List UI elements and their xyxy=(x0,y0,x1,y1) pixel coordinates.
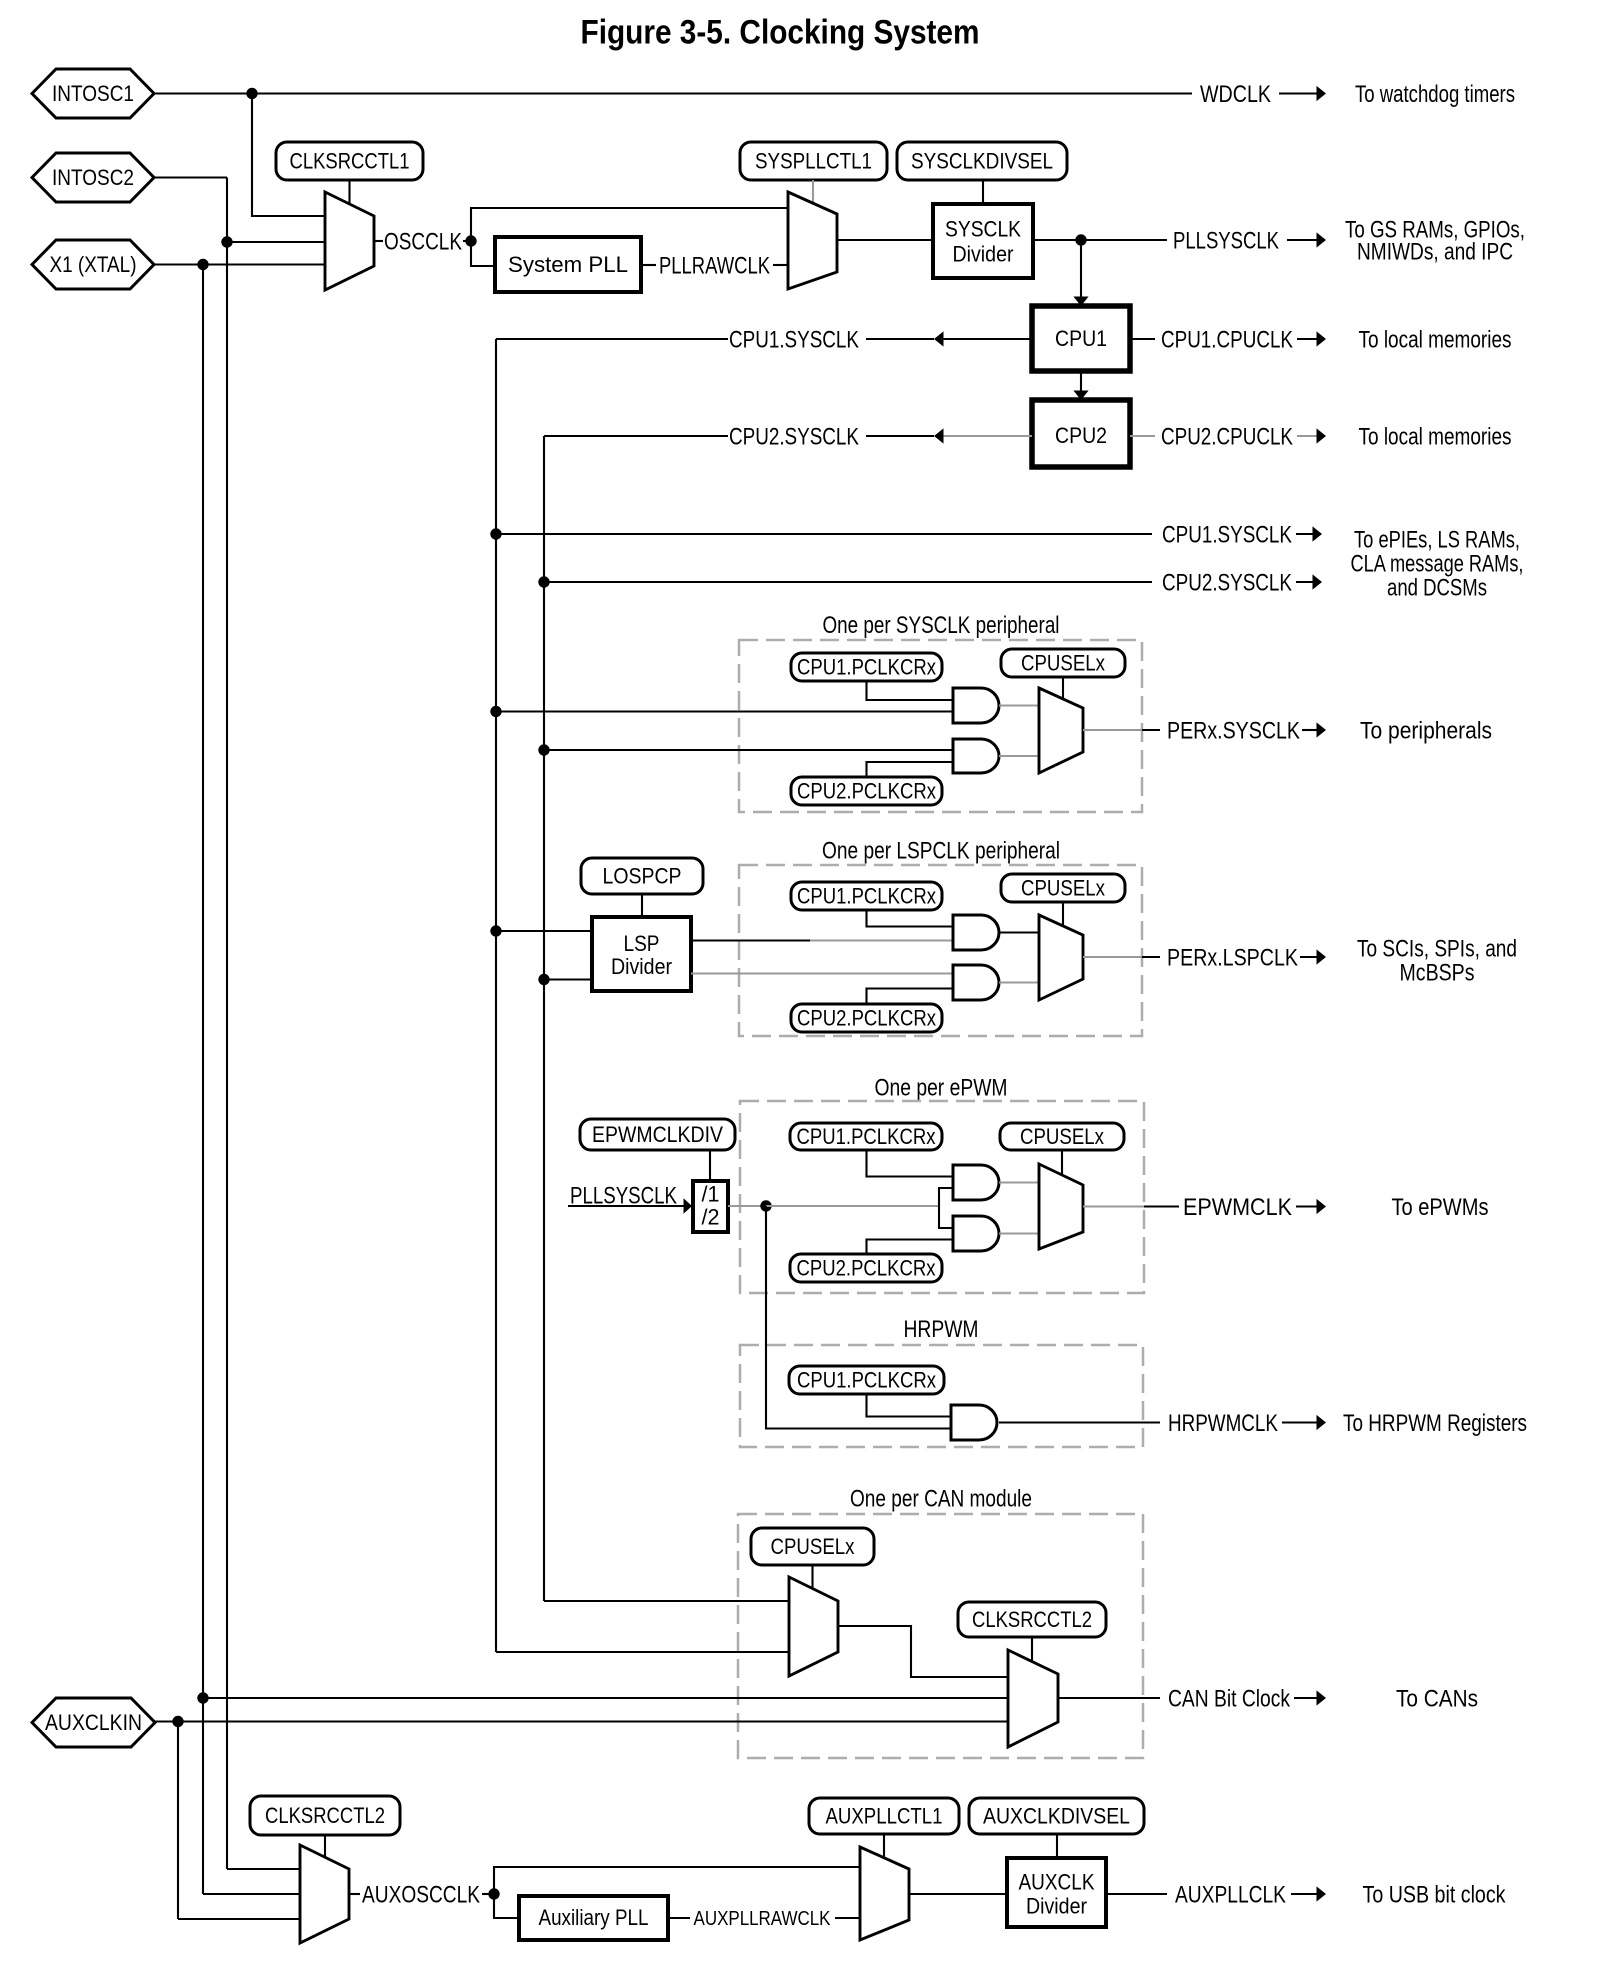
svg-text:McBSPs: McBSPs xyxy=(1400,959,1475,986)
wire CPU2.SYSCLK to LSP divider xyxy=(544,978,592,980)
block AUXCLK Divider xyxy=(1007,1858,1106,1927)
junction dot X1 branch xyxy=(197,259,208,270)
wire mux U2 to SYSCLK divider xyxy=(837,239,933,241)
junction dot CPU1.SYSCLK to LSP xyxy=(490,925,501,936)
register CPU1.PCLKCRx epwm xyxy=(790,1123,942,1150)
wire LSP out1 gray xyxy=(810,939,953,941)
svg-text:AUXOSCCLK: AUXOSCCLK xyxy=(362,1881,480,1908)
label CPU1.SYSCLK row2 xyxy=(1162,521,1292,548)
input port INTOSC2 xyxy=(32,153,154,202)
wire AUXOSCCLK to aux PLL xyxy=(494,1894,519,1918)
wire AUXCLKIN to aux mux xyxy=(178,1918,300,1920)
svg-text:Auxiliary PLL: Auxiliary PLL xyxy=(539,1905,649,1930)
svg-text:CPUSELx: CPUSELx xyxy=(1021,651,1105,676)
wire AUXOSCCLK seg1 xyxy=(349,1893,360,1895)
section label One per ePWM xyxy=(875,1074,1008,1101)
svg-text:CPU1.CPUCLK: CPU1.CPUCLK xyxy=(1161,326,1293,353)
label CPU1.CPUCLK xyxy=(1161,326,1293,353)
wire AND3 out xyxy=(999,931,1039,933)
wire CPU1.SYSCLK to AND1 xyxy=(496,710,953,712)
svg-text:To local memories: To local memories xyxy=(1359,326,1512,353)
wire CPU1.PCLKCRx sysclk to AND1 xyxy=(867,681,954,700)
wire aux mux out xyxy=(909,1893,1007,1895)
text To HRPWM Registers xyxy=(1343,1410,1527,1437)
wire CAN arrowline xyxy=(1294,1697,1317,1699)
section label One per SYSCLK peripheral xyxy=(823,612,1060,639)
svg-text:SYSPLLCTL1: SYSPLLCTL1 xyxy=(755,149,872,174)
mux U5 EPWMCLK select xyxy=(1039,1164,1083,1249)
arrowhead EPWMCLK xyxy=(1317,1199,1327,1214)
label CPU2.CPUCLK xyxy=(1161,423,1293,450)
mux U6 CAN cpu select xyxy=(789,1577,838,1676)
junction dot CPU1.SYSCLK to AND1 xyxy=(490,706,501,717)
wire CPU2.SYSCLK vertical rail xyxy=(543,436,545,1601)
register CPU2.PCLKCRx lsp xyxy=(791,1004,942,1032)
svg-text:CPUSELx: CPUSELx xyxy=(1020,1124,1104,1149)
wire AND5 out xyxy=(999,1181,1039,1183)
text To local memories 1 xyxy=(1359,326,1512,353)
wire AND2 out xyxy=(999,755,1039,757)
junction dot CPU2.SYSCLK ePIEs xyxy=(538,576,549,587)
label CPU1.SYSCLK row1 xyxy=(729,326,859,353)
svg-text:CPU2.CPUCLK: CPU2.CPUCLK xyxy=(1161,423,1293,450)
label EPWMCLK xyxy=(1183,1194,1292,1221)
svg-text:CPU2: CPU2 xyxy=(1055,423,1107,448)
wire CPU1.PCLKCRx epwm to AND5 xyxy=(867,1150,954,1177)
wire LSP out2 gray xyxy=(691,972,953,974)
and gate AND6 epwm xyxy=(953,1216,999,1251)
wire AUXOSCCLK seg2 xyxy=(482,1893,494,1895)
text To GS RAMs GPIOs xyxy=(1345,216,1525,243)
label AUXPLLCLK xyxy=(1175,1881,1286,1908)
text and DCSMs xyxy=(1387,574,1487,601)
svg-text:To watchdog timers: To watchdog timers xyxy=(1355,81,1515,108)
wire CLKSRCCTL2 aux control xyxy=(324,1835,326,1858)
block CPU2 xyxy=(1032,400,1130,467)
svg-text:CPU1.PCLKCRx: CPU1.PCLKCRx xyxy=(797,1124,936,1149)
wire CLKSRCCTL1 control xyxy=(348,180,350,205)
and gate AND2 sysclk xyxy=(953,739,999,773)
wire CPU1.SYSCLK to CAN mux xyxy=(496,1651,789,1653)
svg-text:LOSPCP: LOSPCP xyxy=(603,864,682,889)
wire PLLSYSCLK down to CPU1 xyxy=(1080,240,1082,297)
input port INTOSC1 xyxy=(32,69,154,118)
block SYSCLK Divider xyxy=(933,204,1033,278)
svg-text:CPU1: CPU1 xyxy=(1055,326,1107,351)
wire CPU1.SYSCLK ePIEs row xyxy=(496,533,1152,535)
input port X1 (XTAL) xyxy=(32,240,154,289)
dashed box LSPCLK peripheral xyxy=(739,865,1142,1036)
wire SYSCLKDIVSEL control xyxy=(982,180,984,204)
wire CPU1.SYSCLK to LSP divider xyxy=(496,930,592,932)
svg-text:Figure 3-5. Clocking System: Figure 3-5. Clocking System xyxy=(581,14,980,52)
register SYSCLKDIVSEL xyxy=(897,142,1067,180)
label WDCLK xyxy=(1200,81,1271,108)
register CPU2.PCLKCRx epwm xyxy=(790,1254,942,1282)
svg-text:To local memories: To local memories xyxy=(1359,423,1512,450)
text To local memories 2 xyxy=(1359,423,1512,450)
svg-text:CPUSELx: CPUSELx xyxy=(771,1534,855,1559)
and gate AND1 sysclk xyxy=(953,688,999,723)
arrowhead PERx.SYSCLK xyxy=(1317,722,1327,737)
arrowhead into CPU2 xyxy=(1073,391,1088,401)
title xyxy=(581,14,980,52)
arrowhead CPU2.SYSCLK left xyxy=(934,428,944,443)
junction dot AUXCLKIN xyxy=(172,1716,183,1727)
svg-text:One per ePWM: One per ePWM xyxy=(875,1074,1008,1101)
wire LOSPCP control xyxy=(641,894,643,917)
block LSP Divider xyxy=(592,917,691,991)
label AUXPLLRAWCLK xyxy=(694,1907,831,1930)
wire OSCCLK bypass to mux U2 xyxy=(471,208,788,241)
svg-text:CPU1.PCLKCRx: CPU1.PCLKCRx xyxy=(797,884,936,909)
svg-text:To ePWMs: To ePWMs xyxy=(1392,1194,1489,1221)
wire mux U4 out gray xyxy=(1083,956,1142,958)
svg-text:System PLL: System PLL xyxy=(508,252,628,277)
wire PLLRAWCLK seg1 xyxy=(641,264,656,266)
wire CPU1.SYSCLK right seg xyxy=(943,338,1032,340)
junction dot EPWMCLK xyxy=(760,1200,771,1211)
wire EPWMCLK arrowline xyxy=(1296,1205,1317,1207)
register CPUSELx epwm xyxy=(1000,1123,1124,1150)
wire OSCCLK seg1 xyxy=(374,240,383,242)
svg-text:AUXPLLCLK: AUXPLLCLK xyxy=(1175,1881,1286,1908)
wire PLLSYSCLK epwm xyxy=(568,1205,684,1207)
svg-text:HRPWM: HRPWM xyxy=(904,1316,979,1343)
register CLKSRCCTL1 xyxy=(276,142,423,180)
text To peripherals xyxy=(1360,717,1492,744)
arrowhead PERx.LSPCLK xyxy=(1317,949,1327,964)
wire CPU1 to CPU2 xyxy=(1080,371,1082,391)
svg-text:One per SYSCLK peripheral: One per SYSCLK peripheral xyxy=(823,612,1060,639)
dashed box HRPWM xyxy=(740,1345,1143,1447)
wire CPU2.CPUCLK seg gray xyxy=(1130,435,1155,437)
block System PLL xyxy=(495,237,641,292)
svg-text:CAN Bit Clock: CAN Bit Clock xyxy=(1168,1685,1291,1712)
register CPU2.PCLKCRx sysclk xyxy=(791,777,942,805)
label AUXOSCCLK xyxy=(362,1881,480,1908)
wire EPWMCLKDIV control xyxy=(709,1150,711,1181)
wire CPUSELx lsp control xyxy=(1062,902,1064,926)
arrowhead CPU1.SYSCLK row2 xyxy=(1313,526,1323,541)
arrowhead AUXPLLCLK xyxy=(1317,1886,1327,1901)
wire INTOSC2 to mux U1 xyxy=(227,241,325,243)
svg-text:PLLSYSCLK: PLLSYSCLK xyxy=(1173,227,1279,254)
wire CPU2.SYSCLK to AND2 xyxy=(544,749,953,751)
wire AUXPLLCTL1 control xyxy=(883,1834,885,1860)
arrowhead CAN Bit Clock xyxy=(1317,1690,1327,1705)
junction dot X1 to CAN xyxy=(197,1692,208,1703)
junction dot INTOSC1 branch xyxy=(246,88,257,99)
register SYSPLLCTL1 xyxy=(740,142,887,180)
svg-text:To HRPWM Registers: To HRPWM Registers xyxy=(1343,1410,1527,1437)
register AUXCLKDIVSEL xyxy=(969,1798,1144,1834)
svg-text:AUXCLKIN: AUXCLKIN xyxy=(45,1710,142,1735)
register CPUSELx sysclk xyxy=(1001,649,1125,677)
junction dot CPU2.SYSCLK to AND2 xyxy=(538,744,549,755)
wire EPWMCLK to HRPWM xyxy=(766,1206,951,1429)
dashed box ePWM xyxy=(740,1101,1144,1293)
svg-text:One per CAN module: One per CAN module xyxy=(850,1485,1032,1512)
text McBSPs xyxy=(1400,959,1475,986)
label CPU2.SYSCLK row2 xyxy=(1162,569,1292,596)
wire mux U3 out gray xyxy=(1083,729,1142,731)
mux U3 PERx.SYSCLK select xyxy=(1039,688,1083,773)
junction dot CPU2.SYSCLK to LSP xyxy=(538,974,549,985)
wire INTOSC2 to aux mux xyxy=(227,1868,300,1870)
text To watchdog timers xyxy=(1355,81,1515,108)
wire mux U4 out black xyxy=(1142,956,1160,958)
register CLKSRCCTL2 aux xyxy=(250,1796,400,1835)
svg-text:To CANs: To CANs xyxy=(1396,1685,1478,1712)
wire INTOSC2 out xyxy=(154,176,227,178)
arrowhead CPU1.SYSCLK left xyxy=(934,331,944,346)
wire OSCCLK seg2 xyxy=(463,240,471,242)
svg-text:PLLRAWCLK: PLLRAWCLK xyxy=(659,252,770,279)
svg-text:PERx.SYSCLK: PERx.SYSCLK xyxy=(1167,717,1300,744)
svg-text:CPU1.SYSCLK: CPU1.SYSCLK xyxy=(1162,521,1292,548)
svg-text:AUXPLLRAWCLK: AUXPLLRAWCLK xyxy=(694,1907,831,1930)
register CPUSELx lsp xyxy=(1001,874,1125,902)
wire CPU1.SYSCLK row2 arrowline xyxy=(1296,533,1313,535)
wire PLLSYSCLK out xyxy=(1033,239,1167,241)
block EPWM clock divider /1 /2 xyxy=(693,1181,728,1232)
wire CPU2.SYSCLK ePIEs row xyxy=(544,581,1152,583)
and gate AND3 lsp xyxy=(953,915,999,950)
register AUXPLLCTL1 xyxy=(809,1798,959,1834)
register CPU1.PCLKCRx hrpwm xyxy=(789,1366,944,1394)
wire CLKSRCCTL2 can control xyxy=(1031,1637,1033,1663)
svg-text:AUXCLKDIVSEL: AUXCLKDIVSEL xyxy=(983,1804,1130,1829)
arrowhead CPU1.CPUCLK xyxy=(1317,331,1327,346)
label PLLSYSCLK xyxy=(1173,227,1279,254)
wire HRPWMCLK out xyxy=(999,1421,1160,1423)
svg-text:LSP: LSP xyxy=(624,931,660,956)
svg-text:CPU1.PCLKCRx: CPU1.PCLKCRx xyxy=(797,1368,936,1393)
wire CPU1.SYSCLK left seg xyxy=(496,338,728,340)
register LOSPCP xyxy=(581,858,703,894)
wire CPU1.SYSCLK mid seg xyxy=(866,338,934,340)
wire epwm div out xyxy=(728,1205,766,1207)
wire LSP out1 black xyxy=(691,939,810,941)
wire CPU1.CPUCLK seg xyxy=(1130,338,1155,340)
svg-text:INTOSC1: INTOSC1 xyxy=(52,81,134,106)
wire X1 to aux mux xyxy=(203,1893,300,1895)
svg-text:AUXPLLCTL1: AUXPLLCTL1 xyxy=(826,1804,943,1829)
wire epwm main gray xyxy=(766,1205,939,1207)
svg-text:SYSCLKDIVSEL: SYSCLKDIVSEL xyxy=(911,149,1053,174)
wire epwm jog xyxy=(939,1188,953,1228)
wire CPU1.PCLKCRx hrpwm to AND7 xyxy=(867,1394,952,1417)
wire AUXPLLCLK arrowline xyxy=(1291,1893,1317,1895)
svg-text:To USB bit clock: To USB bit clock xyxy=(1363,1881,1507,1908)
text To SCIs SPIs and xyxy=(1357,935,1517,962)
svg-text:PERx.LSPCLK: PERx.LSPCLK xyxy=(1167,944,1298,971)
svg-text:EPWMCLKDIV: EPWMCLKDIV xyxy=(592,1122,723,1147)
wire CPUSELx sysclk control xyxy=(1062,677,1064,699)
svg-text:CLKSRCCTL2: CLKSRCCTL2 xyxy=(265,1803,385,1828)
junction dot OSCCLK xyxy=(465,235,476,246)
wire CPU2.SYSCLK left seg xyxy=(544,435,728,437)
wire CPU2.SYSCLK right seg gray xyxy=(943,435,1032,437)
svg-text:/1: /1 xyxy=(702,1182,720,1207)
section label One per LSPCLK peripheral xyxy=(822,837,1060,864)
and gate AND5 epwm xyxy=(953,1165,999,1200)
svg-text:X1 (XTAL): X1 (XTAL) xyxy=(50,252,137,277)
svg-text:CPU2.PCLKCRx: CPU2.PCLKCRx xyxy=(797,1256,936,1281)
text CLA message RAMs xyxy=(1351,550,1524,577)
wire OSCCLK to System PLL xyxy=(471,241,495,266)
wire CPU2.SYSCLK row2 arrowline xyxy=(1296,581,1313,583)
and gate AND7 hrpwm xyxy=(951,1405,997,1440)
svg-text:EPWMCLK: EPWMCLK xyxy=(1183,1194,1292,1221)
wire CPU2.PCLKCRx lsp to AND4 xyxy=(867,989,954,1005)
svg-text:INTOSC2: INTOSC2 xyxy=(52,165,134,190)
wire CPU2.SYSCLK mid seg xyxy=(866,435,934,437)
label PLLRAWCLK xyxy=(659,252,770,279)
wire CPU1.SYSCLK vertical rail xyxy=(495,339,497,1652)
section label One per CAN module xyxy=(850,1485,1032,1512)
svg-text:To peripherals: To peripherals xyxy=(1360,717,1492,744)
wire AND1 out xyxy=(999,704,1039,706)
block Auxiliary PLL xyxy=(519,1896,668,1940)
mux U9 AUXPLL bypass select xyxy=(860,1847,909,1940)
wire PLLRAWCLK seg2 xyxy=(773,264,788,266)
wire CPUSELx can control xyxy=(811,1565,813,1592)
wire X1 to mux U1 xyxy=(154,263,325,265)
wire X1 vertical rail xyxy=(202,265,204,1895)
svg-text:HRPWMCLK: HRPWMCLK xyxy=(1168,1410,1278,1437)
svg-text:CPUSELx: CPUSELx xyxy=(1021,876,1105,901)
wire CPU2.CPUCLK arrow gray xyxy=(1297,435,1317,437)
svg-text:WDCLK: WDCLK xyxy=(1200,81,1271,108)
wire SYSPLLCTL1 control xyxy=(812,180,814,204)
wire mux U5 out gray xyxy=(1083,1205,1144,1207)
wire HRPWMCLK arrowline xyxy=(1282,1421,1317,1423)
register CLKSRCCTL2 can xyxy=(958,1602,1106,1637)
arrowhead HRPWMCLK xyxy=(1317,1415,1327,1430)
register CPU1.PCLKCRx sysclk xyxy=(791,653,942,681)
wire INTOSC1 to WDCLK xyxy=(154,92,1192,94)
block CPU1 xyxy=(1032,306,1130,371)
text To USB bit clock xyxy=(1363,1881,1507,1908)
svg-text:CPU2.PCLKCRx: CPU2.PCLKCRx xyxy=(797,1006,936,1031)
wire CPU2.PCLKCRx sysclk to AND2 xyxy=(867,762,954,777)
junction dot INTOSC2 to mux U1 xyxy=(221,236,232,247)
junction dot AUXOSCCLK xyxy=(488,1888,499,1899)
svg-text:CLKSRCCTL1: CLKSRCCTL1 xyxy=(290,149,410,174)
junction dot CPU1.SYSCLK ePIEs xyxy=(490,528,501,539)
mux U2 PLL bypass select xyxy=(788,192,837,289)
wire WDCLK arrow xyxy=(1279,92,1317,94)
section label HRPWM xyxy=(904,1316,979,1343)
wire CAN bit clock out xyxy=(1058,1697,1160,1699)
svg-text:and DCSMs: and DCSMs xyxy=(1387,574,1487,601)
label PERx.SYSCLK xyxy=(1167,717,1300,744)
wire AND6 out xyxy=(999,1232,1039,1234)
label CPU2.SYSCLK row1 xyxy=(729,423,859,450)
wire INTOSC2 vertical rail xyxy=(226,178,228,1870)
svg-text:AUXCLK: AUXCLK xyxy=(1019,1870,1095,1895)
svg-text:NMIWDs, and IPC: NMIWDs, and IPC xyxy=(1357,238,1513,265)
svg-text:/2: /2 xyxy=(702,1205,720,1230)
svg-text:One per LSPCLK peripheral: One per LSPCLK peripheral xyxy=(822,837,1060,864)
label PERx.LSPCLK xyxy=(1167,944,1298,971)
mux U4 PERx.LSPCLK select xyxy=(1039,915,1083,1000)
mux U8 AUXOSCCLK select xyxy=(300,1845,349,1943)
wire CPU2.SYSCLK to CAN mux xyxy=(544,1600,789,1602)
input port AUXCLKIN xyxy=(32,1698,155,1747)
text To ePWMs xyxy=(1392,1194,1489,1221)
svg-text:Divider: Divider xyxy=(1026,1894,1087,1919)
svg-text:CLKSRCCTL2: CLKSRCCTL2 xyxy=(972,1607,1092,1632)
arrowhead PLLSYSCLK epwm xyxy=(684,1198,693,1213)
wire AND4 out xyxy=(999,981,1039,983)
register EPWMCLKDIV xyxy=(580,1119,735,1150)
svg-text:To SCIs, SPIs, and: To SCIs, SPIs, and xyxy=(1357,935,1517,962)
wire mux U3 out black xyxy=(1142,729,1160,731)
text To CANs xyxy=(1396,1685,1478,1712)
label PLLSYSCLK epwm xyxy=(570,1182,677,1209)
wire PERx.LSPCLK arrowline xyxy=(1300,956,1317,958)
arrowhead CPU2.SYSCLK row2 xyxy=(1313,574,1323,589)
mux U7 CAN bit clock select xyxy=(1008,1650,1058,1747)
text NMIWDs and IPC xyxy=(1357,238,1513,265)
wire AUXPLLCLK out xyxy=(1106,1893,1167,1895)
and gate AND4 lsp xyxy=(953,965,999,1000)
wire PLLSYSCLK arrow xyxy=(1287,239,1317,241)
wire X1 to CAN mux xyxy=(203,1697,1008,1699)
wire AUXOSCCLK bypass xyxy=(494,1867,860,1894)
wire AUXCLKIN row xyxy=(155,1720,1008,1722)
wire AUXPLLRAWCLK seg1 xyxy=(668,1917,690,1919)
wire CPU2.PCLKCRx epwm to AND6 xyxy=(867,1240,954,1255)
wire CPU1.CPUCLK arrow xyxy=(1297,338,1317,340)
wire CPUSELx epwm control xyxy=(1061,1150,1063,1175)
wire mux U5 out black xyxy=(1144,1205,1179,1207)
wire AUXCLKDIVSEL control xyxy=(1056,1834,1058,1858)
wire INTOSC1 branch to mux U1 xyxy=(252,94,325,217)
wire PERx.SYSCLK arrowline xyxy=(1302,729,1317,731)
svg-text:Divider: Divider xyxy=(611,954,672,979)
register CPUSELx can xyxy=(751,1528,874,1565)
wire AUXPLLRAWCLK seg2 xyxy=(835,1917,860,1919)
arrowhead into CPU1 xyxy=(1073,297,1088,307)
svg-text:CPU2.PCLKCRx: CPU2.PCLKCRx xyxy=(797,779,936,804)
svg-text:SYSCLK: SYSCLK xyxy=(945,217,1021,242)
mux U1 OSCCLK select xyxy=(325,192,374,290)
svg-text:CPU1.PCLKCRx: CPU1.PCLKCRx xyxy=(797,655,936,680)
text To ePIEs LS RAMs xyxy=(1354,526,1520,553)
arrowhead WDCLK xyxy=(1317,86,1327,101)
dashed box CAN xyxy=(738,1514,1143,1758)
svg-text:Divider: Divider xyxy=(953,242,1014,267)
junction dot PLLSYSCLK xyxy=(1075,234,1086,245)
arrowhead PLLSYSCLK xyxy=(1317,232,1327,247)
wire CPU1.PCLKCRx lsp to AND3 xyxy=(867,910,954,927)
svg-text:CPU2.SYSCLK: CPU2.SYSCLK xyxy=(729,423,859,450)
wire CAN mux U6 to U7 xyxy=(838,1626,1008,1677)
dashed box SYSCLK peripheral xyxy=(739,640,1142,812)
arrowhead CPU2.CPUCLK xyxy=(1317,428,1327,443)
svg-text:CPU2.SYSCLK: CPU2.SYSCLK xyxy=(1162,569,1292,596)
svg-text:CLA message RAMs,: CLA message RAMs, xyxy=(1351,550,1524,577)
label CAN Bit Clock xyxy=(1168,1685,1291,1712)
label HRPWMCLK xyxy=(1168,1410,1278,1437)
svg-text:CPU1.SYSCLK: CPU1.SYSCLK xyxy=(729,326,859,353)
register CPU1.PCLKCRx lsp xyxy=(791,882,942,910)
svg-text:OSCCLK: OSCCLK xyxy=(384,228,462,255)
